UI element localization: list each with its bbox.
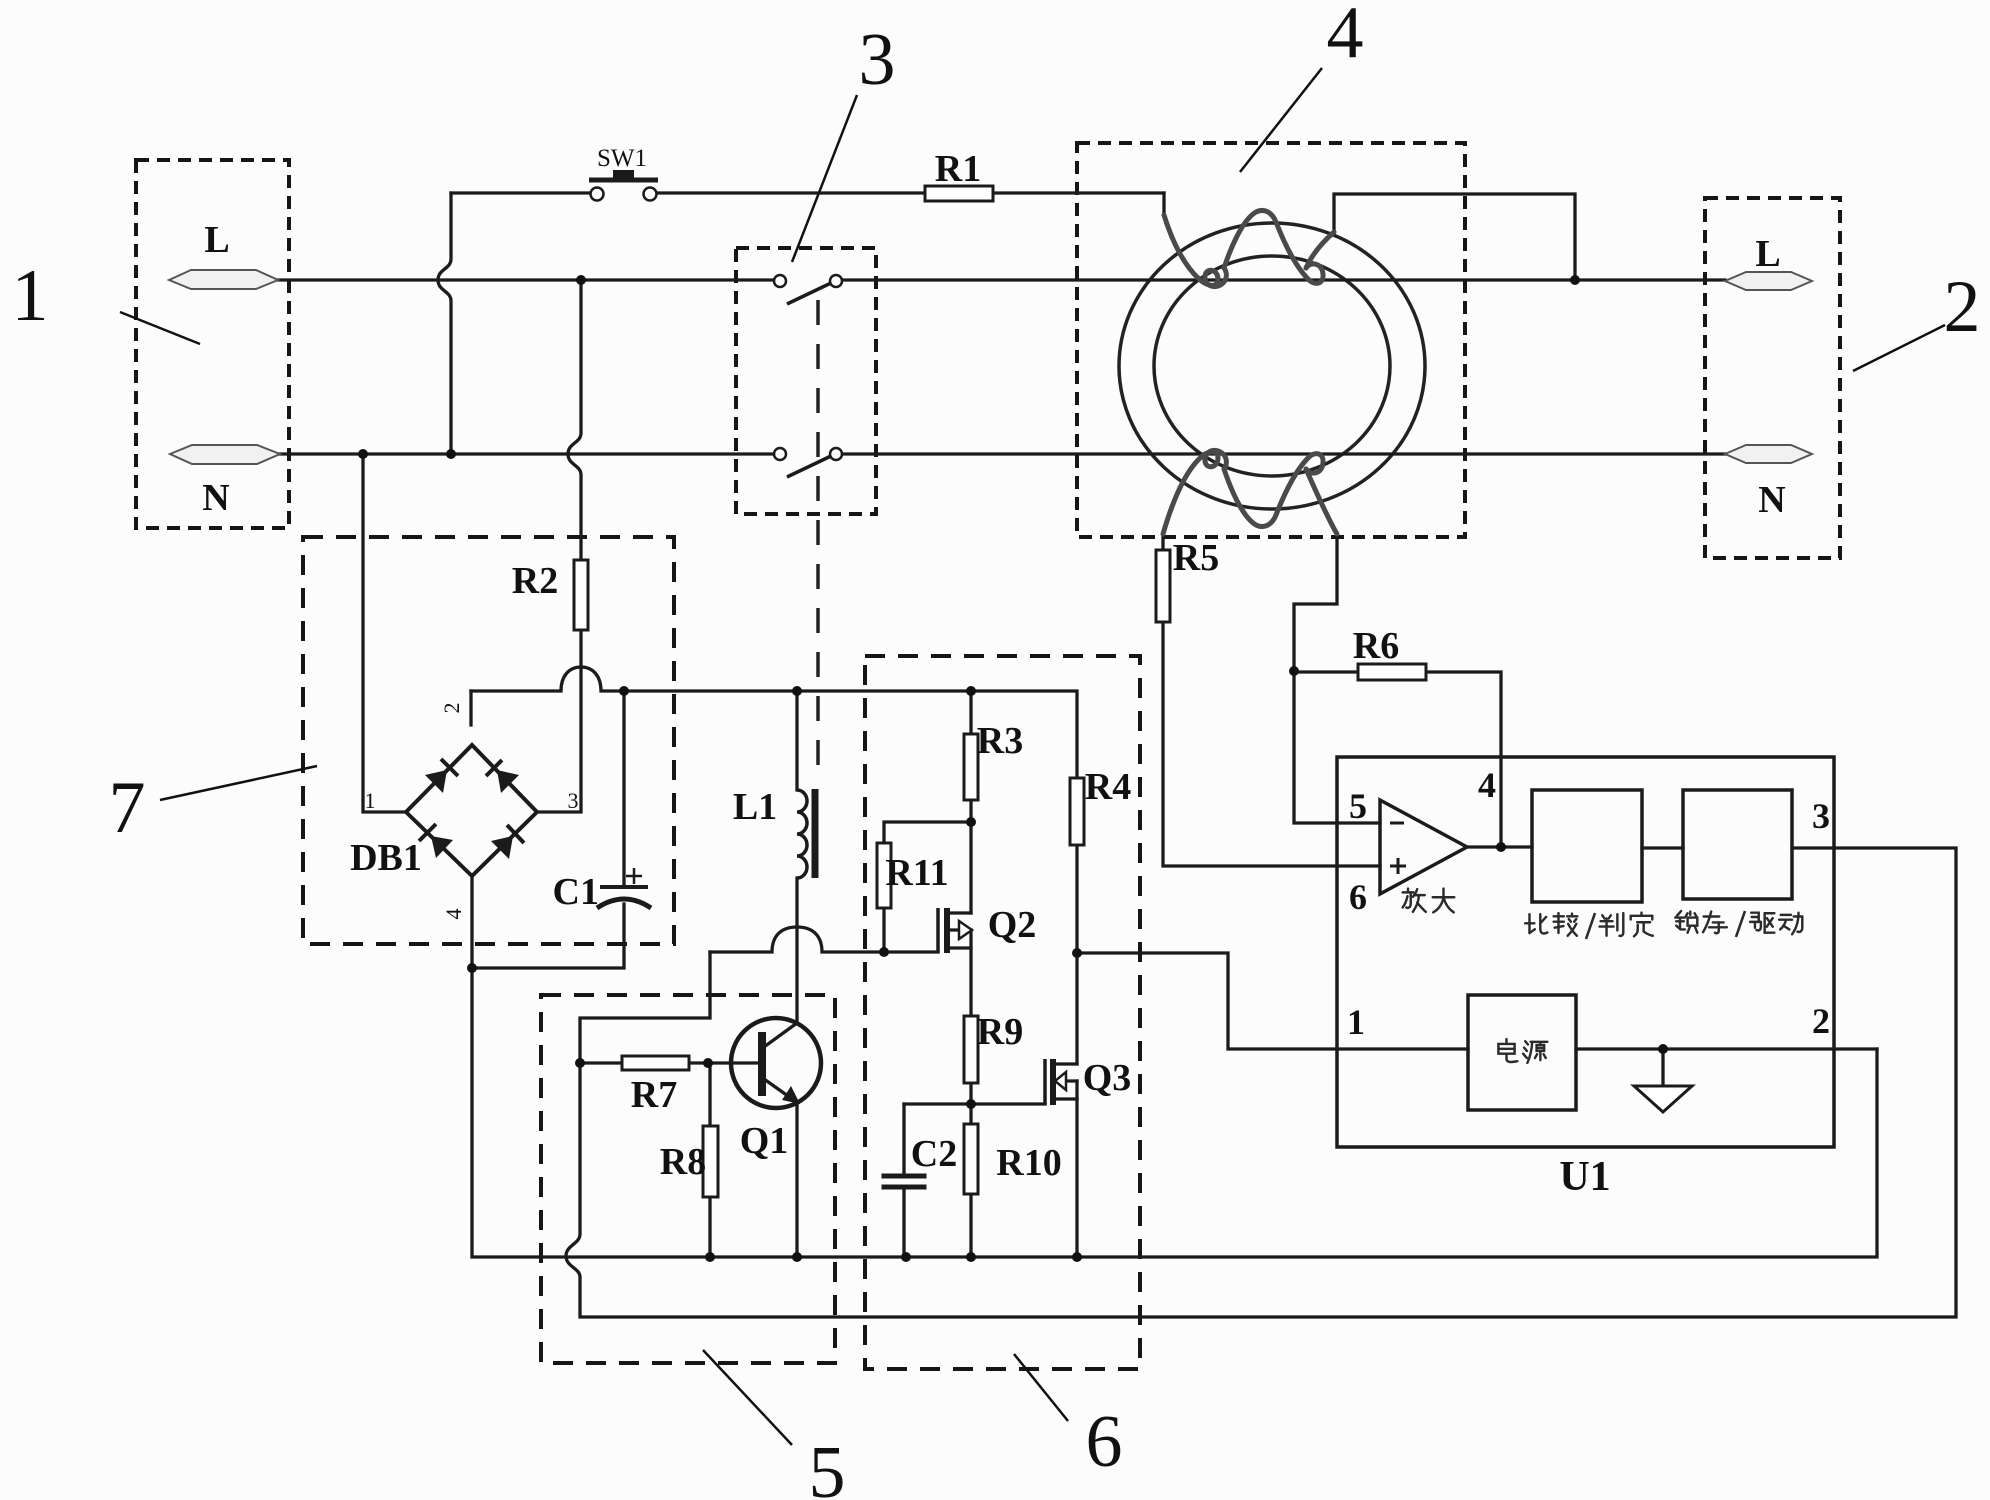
svg-text:Q1: Q1 [740, 1120, 789, 1162]
svg-text:DB1: DB1 [350, 837, 422, 879]
svg-text:Q2: Q2 [988, 904, 1037, 946]
svg-text:7: 7 [109, 767, 146, 849]
svg-text:R8: R8 [660, 1141, 706, 1183]
svg-text:1: 1 [1347, 1002, 1365, 1042]
svg-text:R3: R3 [977, 720, 1023, 762]
svg-text:N: N [202, 477, 229, 519]
svg-text:4: 4 [1327, 0, 1364, 74]
svg-text:1: 1 [365, 788, 376, 813]
svg-text:N: N [1758, 479, 1785, 521]
svg-text:SW1: SW1 [597, 145, 647, 172]
svg-text:R6: R6 [1353, 625, 1399, 667]
svg-text:R7: R7 [631, 1074, 677, 1116]
svg-text:2: 2 [439, 703, 464, 714]
svg-text:L: L [204, 219, 229, 261]
svg-text:4: 4 [441, 909, 466, 920]
svg-text:2: 2 [1812, 1001, 1830, 1041]
svg-text:L: L [1755, 233, 1780, 275]
svg-text:R11: R11 [885, 852, 948, 894]
svg-text:1: 1 [12, 255, 49, 337]
svg-text:R9: R9 [977, 1011, 1023, 1053]
svg-text:R5: R5 [1173, 537, 1219, 579]
svg-text:5: 5 [1349, 786, 1367, 826]
svg-text:R10: R10 [996, 1142, 1061, 1184]
svg-text:R4: R4 [1085, 766, 1131, 808]
svg-text:U1: U1 [1559, 1154, 1610, 1200]
svg-text:3: 3 [859, 19, 896, 101]
svg-text:3: 3 [1812, 796, 1830, 836]
svg-text:C2: C2 [911, 1133, 957, 1175]
svg-text:C1: C1 [553, 871, 599, 913]
svg-text:R1: R1 [935, 148, 981, 190]
svg-text:5: 5 [809, 1432, 846, 1500]
svg-text:6: 6 [1349, 877, 1367, 917]
svg-text:L1: L1 [733, 786, 777, 828]
svg-text:4: 4 [1478, 765, 1496, 805]
svg-text:2: 2 [1944, 266, 1981, 348]
svg-text:Q3: Q3 [1083, 1057, 1132, 1099]
svg-text:R2: R2 [512, 560, 558, 602]
svg-text:3: 3 [568, 788, 579, 813]
svg-text:6: 6 [1086, 1401, 1123, 1483]
